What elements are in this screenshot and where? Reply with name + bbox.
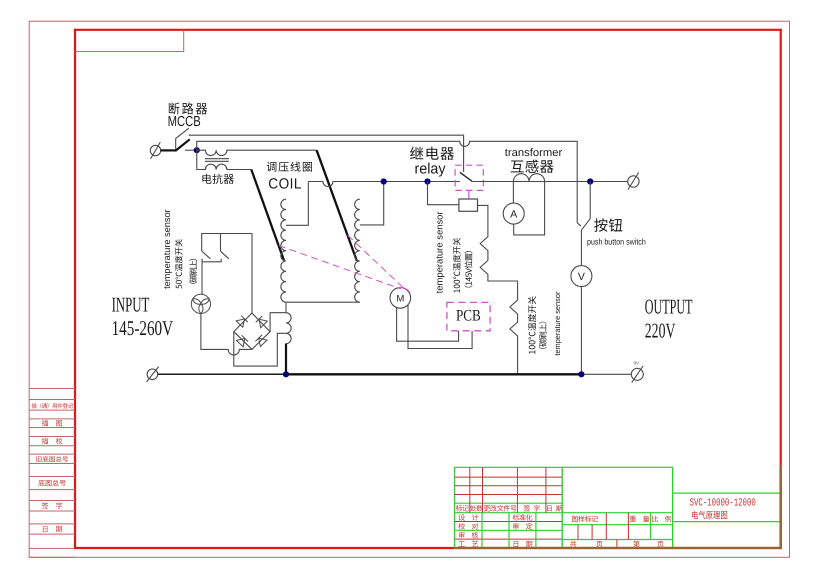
wire relay coil to thermal switches xyxy=(478,205,518,374)
svg-text:M: M xyxy=(396,293,404,304)
title block left grid xyxy=(455,467,563,548)
coil 2 winding xyxy=(355,199,360,302)
wire input to MCCB xyxy=(161,149,176,151)
label 断路器 xyxy=(169,102,207,114)
wire fan to bridge xyxy=(201,314,252,356)
CT secondary loop xyxy=(513,182,544,235)
coil 2 tap wire xyxy=(360,182,384,225)
voltmeter V xyxy=(571,266,592,287)
coil 1 tap wire xyxy=(286,182,308,226)
node B xyxy=(381,178,387,184)
relay coil box xyxy=(459,199,478,211)
left column label 日 期 xyxy=(43,526,62,532)
input terminal N1 xyxy=(147,367,159,382)
left column label 借（通）用件登记 xyxy=(31,403,73,408)
svg-text:PCB: PCB xyxy=(456,308,481,325)
label 调压线圈 xyxy=(267,162,312,172)
left column label 描 图 xyxy=(42,420,62,426)
motor lead 2 xyxy=(408,305,472,349)
svg-text:INPUT: INPUT xyxy=(112,292,150,316)
push button switch symbol xyxy=(577,182,590,266)
main wire relay to output xyxy=(472,181,627,183)
node A (MCCB out) xyxy=(194,147,200,153)
main border left xyxy=(74,29,76,549)
title block middle texts xyxy=(570,516,671,547)
coil wiper arm 2 xyxy=(317,150,357,261)
main border bottom (red part) xyxy=(74,547,455,549)
svg-text:OUTPUT: OUTPUT xyxy=(645,295,693,319)
input terminal L1 xyxy=(150,142,160,159)
PCB dashed box xyxy=(447,302,490,330)
output terminal L2 xyxy=(628,173,639,190)
svg-text:relay: relay xyxy=(415,161,446,178)
auxiliary winding xyxy=(286,302,291,343)
svg-text:push button switch: push button switch xyxy=(587,237,646,247)
relay coil link (magenta) xyxy=(468,190,470,199)
node D xyxy=(587,178,593,184)
label 按钮 xyxy=(594,218,622,231)
bridge diode D3 xyxy=(237,335,249,347)
sensor label group 3 (100C brush) xyxy=(528,291,562,355)
title block right grid xyxy=(673,467,781,548)
top-left reference box xyxy=(75,30,184,52)
motor rim arc xyxy=(397,288,410,294)
bridge diode D4 xyxy=(255,335,267,347)
wire bridge left corner loop xyxy=(234,332,286,366)
main border top xyxy=(74,29,782,31)
coil wiper arm 1 xyxy=(251,170,284,261)
svg-text:COIL: COIL xyxy=(268,176,302,192)
wire bridge right corner xyxy=(270,313,286,332)
sensor label group 2 (100C 145V) xyxy=(433,211,472,293)
main wire with hop xyxy=(308,182,460,187)
main border right (red part) xyxy=(780,29,782,466)
bridge diode D1 xyxy=(236,316,248,328)
thermal switch 50C xyxy=(202,234,252,314)
left column label 旧底图总号 xyxy=(36,456,68,462)
wire voltmeter to bus xyxy=(580,287,582,375)
motor lead 1 xyxy=(397,308,459,342)
svg-text:temperature sensor: temperature sensor xyxy=(162,209,172,289)
node E xyxy=(283,371,289,377)
wire MCCB pole2 to relay (top) xyxy=(189,135,464,172)
relay contact dashed box xyxy=(455,165,483,190)
bus wire left xyxy=(158,373,286,375)
main border right (brown part) xyxy=(779,466,782,549)
svg-text:SVC-10000-12000: SVC-10000-12000 xyxy=(690,497,756,509)
left margin column grid xyxy=(29,389,75,558)
wire node C to relay coil xyxy=(428,182,459,205)
breaker MCCB symbol xyxy=(175,128,197,151)
title block middle grid xyxy=(562,467,672,548)
svg-text:220V: 220V xyxy=(645,318,676,342)
fan motor xyxy=(191,294,210,313)
bridge diode D2 xyxy=(256,316,268,328)
svg-text:MCCB: MCCB xyxy=(168,114,201,130)
coil bottoms link wire xyxy=(286,301,360,303)
drawing title 电气原理图 xyxy=(692,511,727,519)
wiper link dashed 2 xyxy=(348,235,405,289)
wire node A to push button (line2) xyxy=(197,141,577,223)
svg-text:temperature sensor: temperature sensor xyxy=(553,291,562,355)
relay contact blade xyxy=(460,172,472,181)
svg-text:transformer: transformer xyxy=(505,147,563,159)
svg-text:145-260V: 145-260V xyxy=(112,316,174,340)
label 互感器 xyxy=(511,160,554,173)
sensor label group 1 (50C brush) xyxy=(162,209,197,289)
svg-text:V: V xyxy=(578,271,585,283)
label 电抗器 xyxy=(202,174,234,184)
svg-text:9V: 9V xyxy=(634,361,640,366)
bus wire middle (thick) xyxy=(286,373,581,375)
reactor 电抗器 xyxy=(197,150,317,169)
svg-text:A: A xyxy=(510,208,517,220)
CT winding humps xyxy=(513,174,544,182)
ammeter A xyxy=(503,203,524,224)
wiper link dashed 1 xyxy=(279,246,401,289)
svg-text:temperature sensor: temperature sensor xyxy=(433,211,444,293)
node F xyxy=(578,371,584,377)
winding to bus (black) xyxy=(285,344,287,375)
node C xyxy=(424,178,430,184)
left column label 描 校 xyxy=(42,438,63,444)
left column label 底图总号 xyxy=(38,480,65,486)
main border bottom (brown part) xyxy=(455,547,782,550)
coil 1 winding xyxy=(281,199,286,302)
left column label 签 字 xyxy=(42,502,62,508)
label 继电器 xyxy=(410,147,454,160)
motor M xyxy=(390,288,411,309)
bridge rectifier diamond xyxy=(234,313,270,349)
title block left texts xyxy=(456,505,563,547)
output terminal N2 xyxy=(631,361,643,383)
bus wire right xyxy=(581,373,631,375)
